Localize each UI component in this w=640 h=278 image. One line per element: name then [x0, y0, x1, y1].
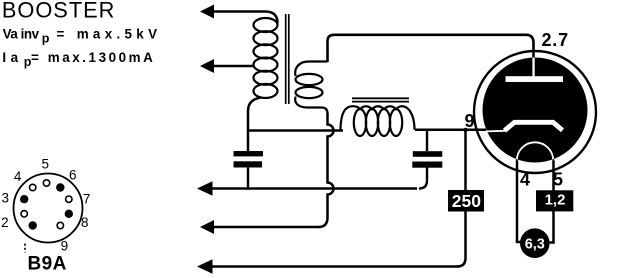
svg-text:3: 3	[1, 190, 9, 205]
svg-text:6,3: 6,3	[525, 237, 545, 253]
wire junction down to 250 box and bottom line	[457, 131, 466, 267]
inductor L1	[341, 106, 415, 136]
wire C2 top lead	[426, 131, 428, 152]
tube V1 inner disc	[483, 58, 588, 163]
grid electrode (white band)	[505, 122, 563, 130]
socket pin 9	[57, 222, 63, 228]
wire primary bottom to C1	[248, 98, 261, 152]
value blob 6,3	[520, 228, 550, 258]
grid lead entry (white thin)	[486, 130, 505, 133]
svg-text:Ia: Ia	[2, 50, 18, 65]
svg-text:p: p	[42, 32, 50, 46]
arrow terminal 5 (bottom)	[212, 265, 458, 268]
socket B9A outline	[14, 174, 83, 243]
heater dome white part (over disc)	[517, 142, 553, 160]
svg-text:BOOSTER: BOOSTER	[2, 0, 115, 23]
capacitor C1	[234, 151, 264, 168]
socket pin 7	[66, 196, 72, 202]
heater lead pin 4	[517, 161, 521, 243]
svg-text:B9A: B9A	[28, 254, 67, 275]
svg-text:2: 2	[1, 215, 9, 230]
arrow terminal 4	[212, 226, 319, 229]
wire C1 bottom to line3	[247, 168, 249, 189]
svg-text:= max.1300mA: = max.1300mA	[31, 50, 153, 65]
transformer T1 primary winding	[254, 18, 278, 98]
value box 250	[448, 190, 484, 212]
svg-text:6: 6	[69, 167, 77, 182]
heater dome black part (outside disc)	[517, 142, 553, 160]
svg-text:7: 7	[83, 191, 91, 206]
svg-text:250: 250	[452, 191, 481, 211]
socket pin 6	[56, 183, 64, 191]
anode lead (white inside disc)	[532, 58, 534, 78]
wire inductor to grid (pin 9)	[415, 129, 486, 132]
arrow terminal 1 (top)	[212, 10, 266, 13]
wire secondary bottom vertical with two hops	[319, 113, 334, 227]
svg-text:Va inv: Va inv	[3, 26, 40, 41]
socket pin 5	[43, 180, 49, 186]
svg-text:9: 9	[61, 239, 69, 254]
svg-text:4: 4	[520, 170, 530, 190]
arrow terminal 3 (long line to C2)	[212, 187, 417, 190]
svg-text:9: 9	[465, 111, 475, 131]
socket pin 3	[20, 195, 28, 203]
socket pin 4	[30, 184, 36, 190]
svg-text:4: 4	[14, 169, 22, 184]
socket pin 8	[65, 210, 73, 218]
svg-text:1,2: 1,2	[545, 192, 566, 209]
svg-text:2.7: 2.7	[542, 30, 569, 50]
capacitor C2	[412, 151, 442, 168]
value box 1,2	[536, 190, 573, 211]
svg-text:8: 8	[81, 215, 89, 230]
svg-text:5: 5	[553, 170, 563, 190]
wire C2 bottom lead	[419, 168, 427, 189]
wire node line (grid bus y130.5)	[248, 129, 343, 132]
socket pin 1	[29, 221, 37, 229]
node junction at grid bus	[463, 128, 467, 132]
socket pin 2	[21, 211, 27, 217]
arrow terminal 2	[212, 65, 254, 68]
anode plate (white bar)	[506, 76, 564, 82]
transformer T1 secondary winding	[295, 62, 327, 114]
wire into transformer primary top	[266, 12, 278, 24]
transformer T1 core	[286, 14, 289, 104]
wire secondary top to anode supply line	[328, 35, 534, 62]
svg-text:= max.5kV: = max.5kV	[57, 26, 158, 41]
tube V1 envelope	[474, 51, 596, 173]
inductor L1 core	[352, 98, 409, 101]
socket label 1 (faded)	[24, 244, 26, 253]
svg-text:5: 5	[42, 156, 50, 171]
heater lead pin 5	[549, 161, 554, 243]
